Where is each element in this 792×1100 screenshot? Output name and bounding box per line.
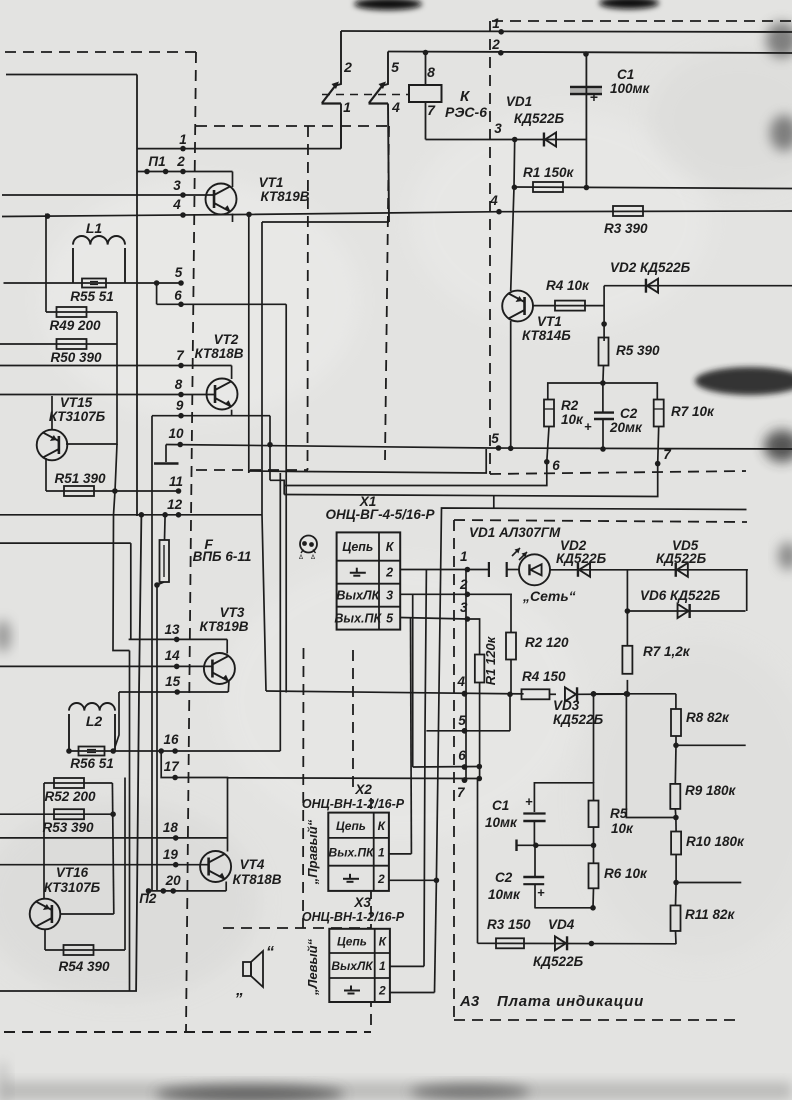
svg-text:С1: С1 xyxy=(492,798,509,813)
svg-text:R9 180к: R9 180к xyxy=(685,783,737,798)
svg-text:ВыхЛК: ВыхЛК xyxy=(336,589,380,603)
svg-text:КТ818В: КТ818В xyxy=(195,346,244,361)
svg-text:5: 5 xyxy=(175,265,183,280)
svg-text:5: 5 xyxy=(491,431,499,446)
svg-text:R52 200: R52 200 xyxy=(44,789,96,804)
svg-text:„Правый“: „Правый“ xyxy=(305,819,320,885)
svg-text:VD4: VD4 xyxy=(548,917,575,932)
svg-text:Плата индикации: Плата индикации xyxy=(497,993,644,1010)
svg-text:А3: А3 xyxy=(459,993,480,1010)
svg-text:2: 2 xyxy=(176,154,185,169)
svg-text:П2: П2 xyxy=(139,891,157,906)
svg-text:КД522Б: КД522Б xyxy=(533,954,584,969)
svg-text:2: 2 xyxy=(491,37,500,52)
svg-text:РЭС-6: РЭС-6 xyxy=(445,104,487,120)
svg-text:+: + xyxy=(590,89,598,105)
svg-text:ВыхЛК: ВыхЛК xyxy=(331,959,374,973)
svg-text:10мк: 10мк xyxy=(485,815,518,830)
svg-text:R10 180к: R10 180к xyxy=(686,834,745,849)
svg-text:Цепь: Цепь xyxy=(342,540,373,554)
svg-text:1: 1 xyxy=(460,549,468,564)
svg-text:4: 4 xyxy=(456,674,465,689)
svg-text:R4 150: R4 150 xyxy=(522,669,566,684)
svg-text:5: 5 xyxy=(458,713,466,728)
svg-text:ВПБ 6-11: ВПБ 6-11 xyxy=(193,549,252,564)
svg-text:R6 10к: R6 10к xyxy=(604,866,648,881)
svg-text:5: 5 xyxy=(391,59,399,75)
svg-text:6: 6 xyxy=(458,748,466,763)
svg-text:Δ: Δ xyxy=(311,555,315,561)
svg-text:20мк: 20мк xyxy=(609,420,643,435)
svg-text:КД522Б: КД522Б xyxy=(656,551,707,566)
svg-text:КТ819В: КТ819В xyxy=(200,619,249,634)
svg-text:R7 1,2к: R7 1,2к xyxy=(643,644,691,659)
svg-text:VT1: VT1 xyxy=(259,175,284,190)
svg-text:“: “ xyxy=(266,944,274,961)
svg-text:1: 1 xyxy=(343,99,351,115)
svg-text:VT2: VT2 xyxy=(214,332,239,347)
svg-text:R56 51: R56 51 xyxy=(70,756,114,771)
svg-text:3: 3 xyxy=(173,178,181,193)
svg-text:С2: С2 xyxy=(620,406,638,421)
svg-text:С2: С2 xyxy=(495,870,513,885)
svg-text:R7 10к: R7 10к xyxy=(671,404,715,419)
svg-text:L2: L2 xyxy=(86,713,103,729)
svg-text:R1 120к: R1 120к xyxy=(483,635,498,685)
svg-text:КТ3107Б: КТ3107Б xyxy=(49,409,106,424)
svg-text:6: 6 xyxy=(552,458,560,473)
svg-text:R54 390: R54 390 xyxy=(58,959,110,974)
svg-text:7: 7 xyxy=(427,102,436,118)
svg-text:КТ818В: КТ818В xyxy=(233,872,282,887)
svg-text:3: 3 xyxy=(386,589,393,603)
svg-text:КТ819В: КТ819В xyxy=(261,189,310,204)
svg-text:VD1 АЛ307ГМ: VD1 АЛ307ГМ xyxy=(469,525,561,540)
svg-text:VD6 КД522Б: VD6 КД522Б xyxy=(640,588,721,603)
svg-text:П1: П1 xyxy=(148,154,165,169)
svg-text:13: 13 xyxy=(164,622,180,637)
svg-text:X2: X2 xyxy=(354,782,372,797)
svg-text:VT3: VT3 xyxy=(220,605,245,620)
svg-text:L1: L1 xyxy=(86,220,103,236)
svg-text:X3: X3 xyxy=(353,895,371,910)
svg-text:ОНЦ-ВГ-4-5/16-Р: ОНЦ-ВГ-4-5/16-Р xyxy=(326,507,436,522)
svg-text:К: К xyxy=(386,540,395,554)
svg-text:ОНЦ-ВН-1-2/16-Р: ОНЦ-ВН-1-2/16-Р xyxy=(302,910,405,924)
svg-text:8: 8 xyxy=(175,377,183,392)
svg-text:VD2 КД522Б: VD2 КД522Б xyxy=(610,260,691,275)
svg-text:КТ3107Б: КТ3107Б xyxy=(44,880,101,895)
svg-text:17: 17 xyxy=(164,759,181,774)
svg-text:14: 14 xyxy=(165,648,181,663)
svg-text:„Левый“: „Левый“ xyxy=(305,938,320,996)
svg-text:КТ814Б: КТ814Б xyxy=(522,328,571,343)
svg-text:2: 2 xyxy=(377,872,385,886)
svg-text:+: + xyxy=(584,419,592,434)
svg-text:Цепь: Цепь xyxy=(337,934,367,948)
svg-text:10к: 10к xyxy=(561,412,584,427)
svg-text:1: 1 xyxy=(492,16,500,31)
svg-text:16: 16 xyxy=(163,732,179,747)
svg-text:КД522Б: КД522Б xyxy=(514,111,565,126)
svg-text:С1: С1 xyxy=(617,67,634,82)
svg-text:19: 19 xyxy=(163,847,179,862)
svg-text:9: 9 xyxy=(176,398,184,413)
svg-text:15: 15 xyxy=(165,674,181,689)
svg-text:2: 2 xyxy=(378,984,386,998)
svg-text:10мк: 10мк xyxy=(488,887,521,902)
svg-text:Цепь: Цепь xyxy=(336,819,366,833)
svg-text:2: 2 xyxy=(459,577,468,592)
svg-text:R4 10к: R4 10к xyxy=(546,278,590,293)
svg-text:Δ: Δ xyxy=(299,555,303,561)
svg-text:5: 5 xyxy=(386,612,394,626)
svg-text:1: 1 xyxy=(379,959,386,973)
svg-text:R53 390: R53 390 xyxy=(42,820,94,835)
svg-text:VT16: VT16 xyxy=(56,865,89,880)
svg-text:Вых.ПК: Вых.ПК xyxy=(329,845,376,859)
svg-text:VT4: VT4 xyxy=(240,857,265,872)
svg-text:2: 2 xyxy=(385,566,393,580)
svg-text:4: 4 xyxy=(391,99,400,115)
svg-text:R3 150: R3 150 xyxy=(487,917,531,932)
svg-text:R55 51: R55 51 xyxy=(70,289,114,304)
svg-text:VD1: VD1 xyxy=(506,94,532,109)
svg-text:VD3: VD3 xyxy=(553,698,580,713)
svg-text:КД522Б: КД522Б xyxy=(556,551,607,566)
svg-text:10к: 10к xyxy=(611,821,634,836)
svg-text:100мк: 100мк xyxy=(610,81,651,96)
svg-text:18: 18 xyxy=(163,820,179,835)
svg-text:R11 82к: R11 82к xyxy=(685,907,736,922)
svg-text:+: + xyxy=(537,885,545,900)
svg-text:4: 4 xyxy=(172,197,181,212)
svg-text:2: 2 xyxy=(343,59,352,75)
svg-text:4: 4 xyxy=(489,193,498,208)
svg-text:R1 150к: R1 150к xyxy=(523,165,575,180)
svg-text:3: 3 xyxy=(460,600,468,615)
svg-text:R51 390: R51 390 xyxy=(54,471,106,486)
svg-text:8: 8 xyxy=(427,64,435,80)
svg-text:+: + xyxy=(525,794,533,809)
svg-text:R8 82к: R8 82к xyxy=(686,710,730,725)
svg-text:10: 10 xyxy=(168,426,184,441)
svg-text:Вых.ПК: Вых.ПК xyxy=(334,612,382,626)
svg-text:VT15: VT15 xyxy=(60,395,93,410)
svg-text:VT1: VT1 xyxy=(537,314,562,329)
svg-text:12: 12 xyxy=(167,497,183,512)
svg-text:„: „ xyxy=(235,982,244,999)
svg-text:R49 200: R49 200 xyxy=(49,318,101,333)
svg-text:R2 120: R2 120 xyxy=(525,635,569,650)
svg-text:11: 11 xyxy=(169,474,183,489)
svg-text:R3 390: R3 390 xyxy=(604,221,648,236)
svg-text:КД522Б: КД522Б xyxy=(553,712,604,727)
svg-text:„Сеть“: „Сеть“ xyxy=(522,588,576,604)
svg-text:20: 20 xyxy=(165,873,182,888)
svg-text:1: 1 xyxy=(179,132,187,147)
svg-text:ОНЦ-ВН-1-2/16-Р: ОНЦ-ВН-1-2/16-Р xyxy=(302,797,405,811)
svg-text:3: 3 xyxy=(494,121,502,136)
svg-text:R5: R5 xyxy=(610,806,628,821)
svg-text:R50 390: R50 390 xyxy=(50,350,102,365)
svg-text:R5 390: R5 390 xyxy=(616,343,660,358)
svg-text:R2: R2 xyxy=(561,398,579,413)
svg-text:1: 1 xyxy=(378,845,385,859)
svg-text:6: 6 xyxy=(174,288,182,303)
